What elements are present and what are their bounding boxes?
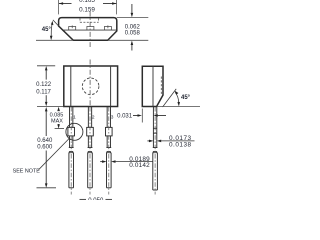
dim 0.640/0.600 lower line and arrow [45,151,48,188]
dim 0.0173/0.0138 right arrow and leader bar [157,140,195,143]
bottom edge extension line right (top view) [108,39,149,41]
svg-text:0.122: 0.122 [36,82,52,88]
45 deg chamfer extension line (left) [53,20,59,26]
vertical centerline through top view [89,12,91,48]
lead 1 centerline [70,107,72,195]
front view right inner rib line [110,66,112,107]
dim 0.085 MAX lower arrow [57,124,60,129]
dim 0.122/0.117 top tick [37,65,55,67]
side view body outline [142,66,163,106]
bottom edge extension line left (top view) [36,39,73,41]
svg-text:0.0138: 0.0138 [169,142,192,149]
svg-text:0.031: 0.031 [117,113,133,119]
svg-text:45°: 45° [42,27,52,33]
lead 2 cross-section rect (top view) [87,27,94,31]
side view hidden dashed edge [160,77,162,95]
lead tip tick line [37,187,57,189]
lead 2 centerline [89,107,91,195]
note callout circle around lead 1 [66,123,83,140]
lead 2 (front view) [87,107,94,188]
svg-text:0.640: 0.640 [37,138,53,144]
bottom extension line right of side view [157,106,200,108]
lead 3 centerline [108,107,110,195]
dim 0.165/0.159 dimension line left segment with arrow [59,2,72,5]
45 deg angle dimension arc with arrows (left) [50,21,54,41]
svg-text:2: 2 [92,114,95,120]
dim 0.085 MAX upper arrow [57,107,60,111]
svg-text:0.117: 0.117 [36,89,51,95]
dim 0.031 extension line [141,109,143,123]
dim 0.0189/0.0142 left arrow [100,160,106,163]
dim 0.062/0.058 upper arrow [131,4,134,17]
dim 0.165/0.159 extension line right [116,0,118,14]
svg-text:0.058: 0.058 [125,30,141,36]
svg-text:0.600: 0.600 [37,144,53,150]
side lead [153,107,158,191]
45 deg angle dimension arc with arrows (right) [175,91,181,107]
dim 0.122/0.117 bottom tick [37,106,64,108]
svg-text:45°: 45° [181,95,191,101]
front view left inner rib line [70,66,72,107]
svg-text:3: 3 [111,114,114,120]
lead 1 (front view) [68,107,75,188]
lead 3 (front view) [106,107,113,188]
side view inner line [152,66,154,106]
dim 0.0173/0.0138 left arrow [147,140,153,143]
SEE NOTE leader line [39,138,70,169]
bottom dim right arrow (cut) [106,198,113,200]
svg-text:0.159: 0.159 [79,7,95,14]
dim 0.165/0.159 extension line left [58,0,60,14]
dim 0.122/0.117 dimension line and arrows [45,66,48,106]
dim 0.640/0.600 upper arrow [45,107,48,136]
top edge extension line right (top view) [117,17,149,19]
dim 0.085 tick line [55,128,64,130]
top view body outline [59,18,117,41]
svg-text:0.050: 0.050 [88,198,104,200]
dashed target circle (hall element) [82,78,99,95]
centerline through front view [89,60,91,107]
dim 0.0189/0.0142 right arrow and leader bar [111,160,153,163]
svg-text:0.0142: 0.0142 [129,162,150,169]
dim 0.031 right arrow [153,114,166,117]
svg-text:SEE NOTE: SEE NOTE [13,169,41,175]
45 deg chamfer extension line (right) [163,89,177,107]
front view body rectangle [64,66,118,107]
svg-text:1: 1 [73,114,76,120]
top view interior parting line [63,29,117,31]
svg-text:MAX: MAX [51,118,63,124]
dim 0.031 left arrow [133,114,142,117]
lead 3 cross-section rect (top view) [104,25,111,30]
dim 0.165/0.159 dimension line right segment with arrow [103,2,117,5]
dashed die target rectangle at top center [80,19,99,23]
dim 0.062/0.058 lower arrow [131,41,134,51]
bottom dim left arrow (cut) [80,198,87,200]
svg-text:0.165: 0.165 [79,0,95,4]
lead 1 cross-section rect (top view) [69,25,76,30]
side lead centerline [154,107,156,195]
